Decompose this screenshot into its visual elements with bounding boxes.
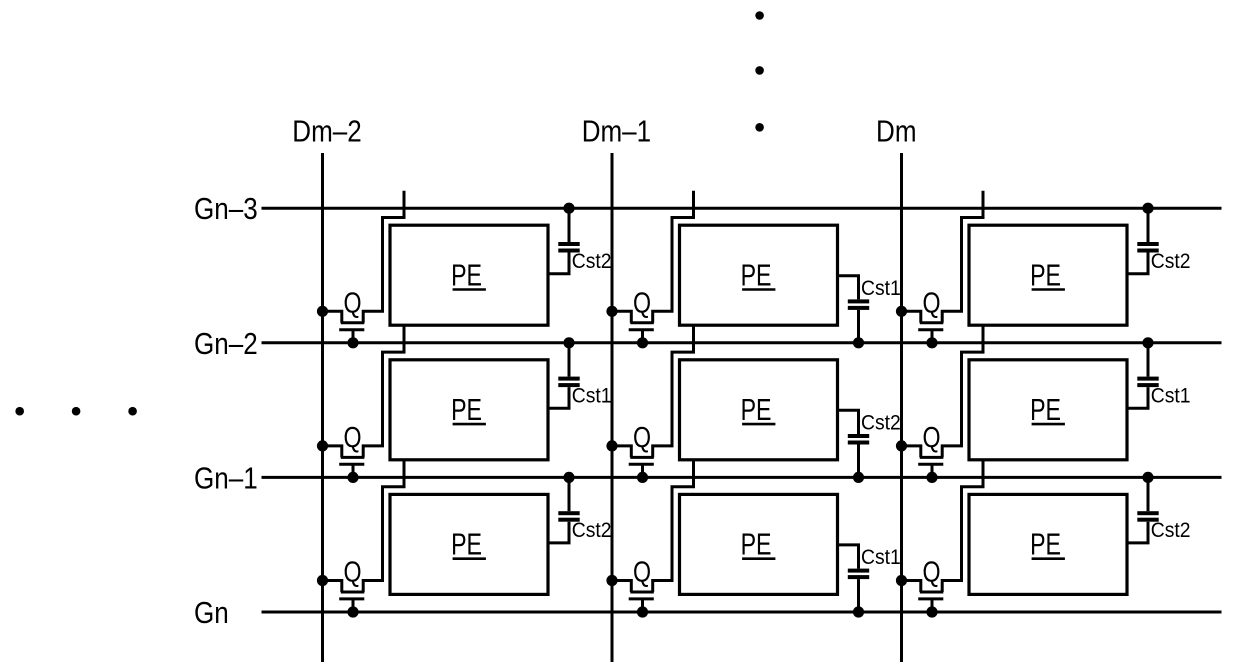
svg-text:PE: PE bbox=[451, 257, 482, 292]
ellipsis dot (more columns, top 3) bbox=[755, 123, 764, 132]
junction source dot row 2 col 3 on Dm bbox=[896, 440, 907, 451]
label PE row 1 col 3 bbox=[1030, 257, 1065, 292]
junction cap dot row 1 col 2 on Gn-2 bbox=[853, 337, 864, 348]
gate line Gn-3 bbox=[262, 207, 1222, 210]
ellipsis dot (more rows, left 2) bbox=[72, 407, 81, 416]
svg-text:PE: PE bbox=[1030, 392, 1061, 427]
svg-text:Gn–2: Gn–2 bbox=[194, 327, 258, 362]
transistor Q row 2 col 3 bbox=[902, 446, 944, 478]
label PE row 1 col 2 bbox=[741, 257, 776, 292]
wire drain net row 3 col 3 (stub over Gn-1, jog, riser) bbox=[942, 460, 983, 592]
wire drain net row 3 col 2 (stub over Gn-1, jog, riser) bbox=[653, 460, 694, 592]
junction cap dot row 2 col 1 on Gn-2 bbox=[563, 337, 574, 348]
wire drain net row 1 col 3 (stub over Gn-3, jog, riser) bbox=[942, 191, 983, 323]
transistor Q row 1 col 1 bbox=[323, 311, 365, 343]
svg-text:Cst2: Cst2 bbox=[861, 411, 901, 435]
junction gate dot row 1 col 3 on Gn-2 bbox=[926, 337, 937, 348]
ellipsis dot (more rows, left 1) bbox=[15, 407, 24, 416]
junction source dot row 3 col 2 on Dm-1 bbox=[606, 575, 617, 586]
junction source dot row 1 col 1 on Dm-2 bbox=[317, 306, 328, 317]
svg-text:Cst1: Cst1 bbox=[572, 384, 612, 408]
PE box row 3 col 3 bbox=[969, 494, 1127, 594]
svg-text:Dm–1: Dm–1 bbox=[582, 114, 651, 149]
ellipsis dot (more columns, top 1) bbox=[755, 11, 764, 20]
transistor Q row 2 col 2 bbox=[612, 446, 654, 478]
junction gate dot row 3 col 1 on Gn bbox=[347, 606, 358, 617]
svg-text:PE: PE bbox=[1030, 257, 1061, 292]
wire drain net row 1 col 1 (stub over Gn-3, jog, riser) bbox=[363, 191, 404, 323]
junction source dot row 1 col 2 on Dm-1 bbox=[606, 306, 617, 317]
junction gate dot row 1 col 2 on Gn-2 bbox=[637, 337, 648, 348]
junction source dot row 2 col 2 on Dm-1 bbox=[606, 440, 617, 451]
junction gate dot row 2 col 1 on Gn-1 bbox=[347, 472, 358, 483]
ellipsis dot (more columns, top 2) bbox=[755, 66, 764, 75]
transistor Q row 3 col 1 bbox=[323, 581, 365, 613]
svg-text:Dm–2: Dm–2 bbox=[292, 114, 361, 149]
svg-text:Cst2: Cst2 bbox=[1151, 518, 1191, 542]
junction gate dot row 2 col 2 on Gn-1 bbox=[637, 472, 648, 483]
svg-text:PE: PE bbox=[741, 392, 772, 427]
svg-text:PE: PE bbox=[451, 392, 482, 427]
svg-text:Q: Q bbox=[343, 286, 361, 319]
ellipsis dot (more rows, left 3) bbox=[128, 407, 137, 416]
svg-text:Q: Q bbox=[633, 420, 651, 453]
junction source dot row 1 col 3 on Dm bbox=[896, 306, 907, 317]
wire drain net row 2 col 1 (stub over Gn-2, jog, riser) bbox=[363, 325, 404, 457]
junction source dot row 3 col 1 on Dm-2 bbox=[317, 575, 328, 586]
capacitor Cst1 row 2 col 1 bbox=[548, 343, 580, 409]
svg-text:Q: Q bbox=[922, 286, 940, 319]
label PE row 3 col 3 bbox=[1030, 527, 1065, 562]
PE box row 1 col 2 bbox=[680, 225, 838, 325]
label PE row 3 col 1 bbox=[451, 527, 486, 562]
PE box row 3 col 1 bbox=[390, 494, 548, 594]
transistor Q row 3 col 2 bbox=[612, 581, 654, 613]
gate line Gn-1 bbox=[262, 476, 1222, 479]
wire drain net row 1 col 2 (stub over Gn-3, jog, riser) bbox=[653, 191, 694, 323]
svg-text:Dm: Dm bbox=[876, 114, 916, 149]
junction cap dot row 3 col 2 on Gn bbox=[853, 606, 864, 617]
junction cap dot row 2 col 3 on Gn-2 bbox=[1142, 337, 1153, 348]
svg-text:Gn–3: Gn–3 bbox=[194, 192, 258, 227]
svg-text:Q: Q bbox=[922, 555, 940, 588]
label PE row 2 col 3 bbox=[1030, 392, 1065, 427]
capacitor Cst1 row 1 col 2 bbox=[838, 276, 870, 343]
junction gate dot row 2 col 3 on Gn-1 bbox=[926, 472, 937, 483]
label PE row 1 col 1 bbox=[451, 257, 486, 292]
label PE row 2 col 2 bbox=[741, 392, 776, 427]
junction source dot row 3 col 3 on Dm bbox=[896, 575, 907, 586]
gate line Gn-2 bbox=[262, 341, 1222, 344]
transistor Q row 2 col 1 bbox=[323, 446, 365, 478]
svg-text:Cst1: Cst1 bbox=[861, 276, 901, 300]
PE box row 2 col 3 bbox=[969, 360, 1127, 460]
svg-text:Q: Q bbox=[633, 555, 651, 588]
svg-text:Gn–1: Gn–1 bbox=[194, 461, 258, 496]
PE box row 1 col 1 bbox=[390, 225, 548, 325]
wire drain net row 2 col 3 (stub over Gn-2, jog, riser) bbox=[942, 325, 983, 457]
transistor Q row 1 col 2 bbox=[612, 311, 654, 343]
svg-text:Cst2: Cst2 bbox=[1151, 249, 1191, 273]
label PE row 3 col 2 bbox=[741, 527, 776, 562]
svg-text:Cst2: Cst2 bbox=[572, 518, 612, 542]
junction gate dot row 3 col 3 on Gn bbox=[926, 606, 937, 617]
transistor Q row 3 col 3 bbox=[902, 581, 944, 613]
junction source dot row 2 col 1 on Dm-2 bbox=[317, 440, 328, 451]
capacitor Cst2 row 1 col 3 bbox=[1127, 208, 1159, 274]
PE box row 2 col 2 bbox=[680, 360, 838, 460]
junction cap dot row 3 col 1 on Gn-1 bbox=[563, 472, 574, 483]
svg-text:PE: PE bbox=[741, 257, 772, 292]
wire drain net row 3 col 1 (stub over Gn-1, jog, riser) bbox=[363, 460, 404, 592]
PE box row 3 col 2 bbox=[680, 494, 838, 594]
wire drain net row 2 col 2 (stub over Gn-2, jog, riser) bbox=[653, 325, 694, 457]
junction gate dot row 1 col 1 on Gn-2 bbox=[347, 337, 358, 348]
capacitor Cst1 row 3 col 2 bbox=[838, 545, 870, 612]
transistor Q row 1 col 3 bbox=[902, 311, 944, 343]
capacitor Cst1 row 2 col 3 bbox=[1127, 343, 1159, 409]
junction cap dot row 3 col 3 on Gn-1 bbox=[1142, 472, 1153, 483]
svg-text:Cst1: Cst1 bbox=[1151, 384, 1191, 408]
capacitor Cst2 row 2 col 2 bbox=[838, 410, 870, 477]
data line Dm bbox=[900, 153, 903, 662]
junction cap dot row 2 col 2 on Gn-1 bbox=[853, 472, 864, 483]
svg-text:Gn: Gn bbox=[194, 596, 229, 631]
svg-text:PE: PE bbox=[1030, 527, 1061, 562]
svg-text:Cst2: Cst2 bbox=[572, 249, 612, 273]
capacitor Cst2 row 1 col 1 bbox=[548, 208, 580, 274]
PE box row 2 col 1 bbox=[390, 360, 548, 460]
junction cap dot row 1 col 1 on Gn-3 bbox=[563, 203, 574, 214]
svg-text:Q: Q bbox=[922, 420, 940, 453]
capacitor Cst2 row 3 col 1 bbox=[548, 477, 580, 543]
data line Dm-1 bbox=[611, 153, 614, 662]
svg-text:Cst1: Cst1 bbox=[861, 545, 901, 569]
junction gate dot row 3 col 2 on Gn bbox=[637, 606, 648, 617]
label PE row 2 col 1 bbox=[451, 392, 486, 427]
gate line Gn bbox=[262, 611, 1222, 614]
junction cap dot row 1 col 3 on Gn-3 bbox=[1142, 203, 1153, 214]
svg-text:Q: Q bbox=[633, 286, 651, 319]
svg-text:Q: Q bbox=[343, 420, 361, 453]
data line Dm-2 bbox=[321, 153, 324, 662]
PE box row 1 col 3 bbox=[969, 225, 1127, 325]
svg-text:Q: Q bbox=[343, 555, 361, 588]
capacitor Cst2 row 3 col 3 bbox=[1127, 477, 1159, 543]
svg-text:PE: PE bbox=[451, 527, 482, 562]
svg-text:PE: PE bbox=[741, 527, 772, 562]
